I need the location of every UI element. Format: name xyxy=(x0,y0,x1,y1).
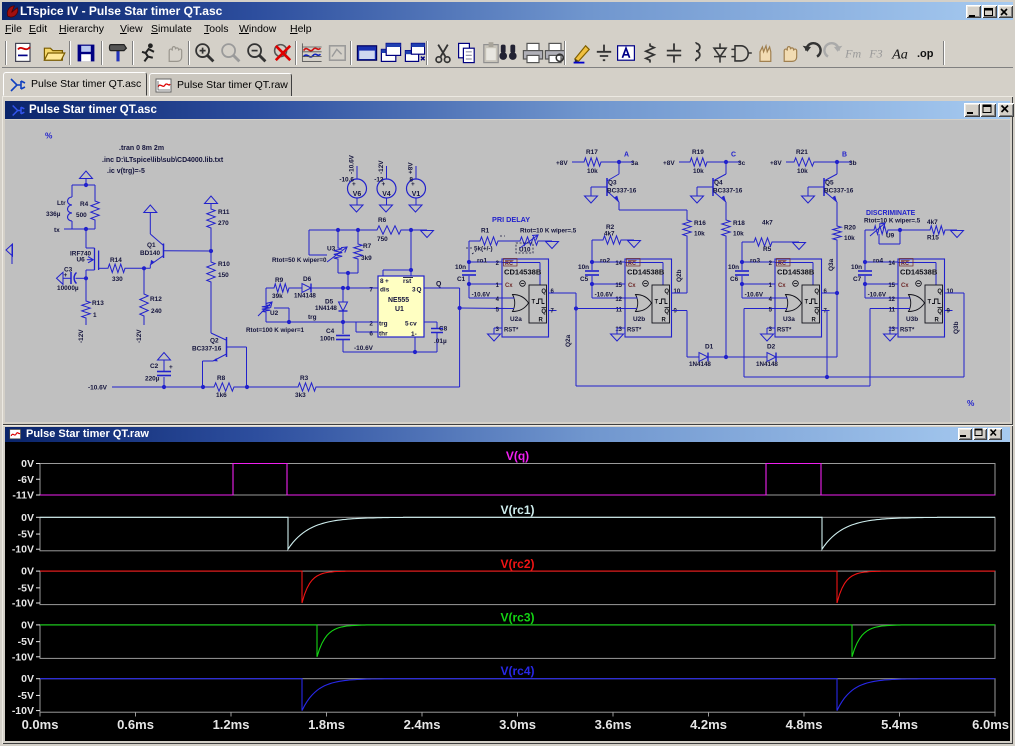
svg-text:10k: 10k xyxy=(844,235,855,242)
svg-text:cv: cv xyxy=(410,321,418,328)
svg-text:10n: 10n xyxy=(578,264,589,271)
svg-text:-10.6: -10.6 xyxy=(339,177,354,184)
svg-text:3a: 3a xyxy=(631,160,639,167)
svg-text:-5V: -5V xyxy=(18,690,34,702)
svg-text:Q: Q xyxy=(937,289,942,295)
svg-text:39k: 39k xyxy=(272,293,283,300)
svg-text:V(q): V(q) xyxy=(506,449,529,463)
svg-text:CD14538B: CD14538B xyxy=(777,268,815,277)
svg-text:10k: 10k xyxy=(797,168,808,175)
svg-text:C1: C1 xyxy=(457,276,466,283)
svg-text:U6: U6 xyxy=(77,257,86,264)
svg-text:Cx: Cx xyxy=(628,283,636,289)
svg-text:U1: U1 xyxy=(395,306,404,313)
svg-text:U10: U10 xyxy=(519,247,531,254)
svg-text:RC: RC xyxy=(628,261,636,267)
svg-text:%: % xyxy=(45,132,53,141)
svg-text:V(rc4): V(rc4) xyxy=(500,664,534,678)
svg-text:0V: 0V xyxy=(21,458,34,470)
svg-text:13: 13 xyxy=(615,327,622,333)
svg-text:5.4ms: 5.4ms xyxy=(881,717,918,732)
svg-text:+8V: +8V xyxy=(556,160,568,167)
svg-text:R9: R9 xyxy=(275,277,284,284)
svg-text:-10.6V: -10.6V xyxy=(868,292,887,299)
svg-text:R12: R12 xyxy=(150,296,162,303)
svg-text:Cx: Cx xyxy=(505,283,513,289)
svg-text:tx: tx xyxy=(54,227,60,234)
svg-text:CD14538B: CD14538B xyxy=(900,268,938,277)
svg-text:C2: C2 xyxy=(150,363,159,370)
svg-text:-10V: -10V xyxy=(12,544,34,556)
svg-text:Ltr: Ltr xyxy=(57,200,66,207)
svg-text:Rtot=10 K wiper=.5: Rtot=10 K wiper=.5 xyxy=(520,228,577,235)
svg-text:13: 13 xyxy=(888,327,895,333)
svg-text:-6V: -6V xyxy=(18,474,34,486)
svg-text:R19: R19 xyxy=(692,149,704,156)
svg-text:3k3: 3k3 xyxy=(295,392,306,399)
svg-text:RC: RC xyxy=(778,261,786,267)
svg-text:RST*: RST* xyxy=(777,328,792,334)
svg-text:Q: Q xyxy=(814,309,819,315)
svg-text:5: 5 xyxy=(405,321,409,328)
svg-text:-10V: -10V xyxy=(12,651,34,663)
svg-text:T: T xyxy=(532,300,536,306)
svg-text:10000µ: 10000µ xyxy=(57,285,79,292)
svg-text:-10.6V: -10.6V xyxy=(349,154,356,174)
svg-text:0V: 0V xyxy=(21,512,34,524)
svg-text:10n: 10n xyxy=(851,264,862,271)
svg-text:4.2ms: 4.2ms xyxy=(690,717,727,732)
svg-text:CD14538B: CD14538B xyxy=(504,268,542,277)
svg-text:D1: D1 xyxy=(705,344,714,351)
svg-text:1: 1 xyxy=(93,312,97,319)
svg-text:C6: C6 xyxy=(730,276,739,283)
svg-text:U2b: U2b xyxy=(633,316,645,323)
svg-text:-5V: -5V xyxy=(18,636,34,648)
svg-text:8: 8 xyxy=(409,177,413,184)
svg-text:Q: Q xyxy=(417,287,422,294)
svg-text:6: 6 xyxy=(824,289,828,295)
svg-text:C8: C8 xyxy=(439,326,448,333)
svg-text:500: 500 xyxy=(76,212,87,219)
svg-text:R6: R6 xyxy=(378,217,387,224)
svg-text:+: + xyxy=(64,272,68,279)
svg-text:U9: U9 xyxy=(886,233,895,240)
svg-text:ro4: ro4 xyxy=(873,258,883,265)
svg-text:10k: 10k xyxy=(694,231,705,238)
svg-text:R7: R7 xyxy=(363,243,372,250)
svg-text:Cx: Cx xyxy=(901,283,909,289)
svg-text:Q4: Q4 xyxy=(714,180,723,187)
svg-text:Rtot=10 K wiper=.5: Rtot=10 K wiper=.5 xyxy=(864,218,921,225)
svg-text:U2: U2 xyxy=(270,310,279,317)
svg-text:%: % xyxy=(967,399,975,408)
svg-text:6.0ms: 6.0ms xyxy=(972,717,1009,732)
svg-text:10k: 10k xyxy=(693,168,704,175)
svg-text:Q: Q xyxy=(937,309,942,315)
svg-text:1.2ms: 1.2ms xyxy=(213,717,250,732)
svg-text:Q3b: Q3b xyxy=(953,321,960,334)
svg-text:U3: U3 xyxy=(327,246,336,253)
svg-text:R: R xyxy=(812,318,817,324)
svg-text:1N4148: 1N4148 xyxy=(689,361,711,368)
svg-text:trg: trg xyxy=(308,314,317,321)
svg-text:U3a: U3a xyxy=(783,316,795,323)
svg-text:RST*: RST* xyxy=(900,328,915,334)
svg-text:Q3a: Q3a xyxy=(828,258,835,271)
svg-text:R1: R1 xyxy=(481,228,490,235)
svg-text:10: 10 xyxy=(947,289,954,295)
svg-text:R14: R14 xyxy=(110,257,122,264)
svg-text:NE555: NE555 xyxy=(388,297,409,304)
svg-text:PRI DELAY: PRI DELAY xyxy=(492,215,530,224)
svg-text:.inc D:\LTspice\lib\sub\CD400: .inc D:\LTspice\lib\sub\CD4000.lib.txt xyxy=(102,157,224,164)
svg-text:BC337-16: BC337-16 xyxy=(192,346,222,353)
svg-text:Rtot=100 K wiper=1: Rtot=100 K wiper=1 xyxy=(246,327,305,334)
svg-text:-12: -12 xyxy=(374,177,384,184)
svg-text:-10V: -10V xyxy=(12,598,34,610)
svg-text:10: 10 xyxy=(674,289,681,295)
svg-text:Q: Q xyxy=(541,289,546,295)
svg-text:T: T xyxy=(655,300,659,306)
svg-text:3.0ms: 3.0ms xyxy=(499,717,536,732)
svg-text:Q: Q xyxy=(664,309,669,315)
svg-text:150: 150 xyxy=(218,272,229,279)
svg-text:-12V: -12V xyxy=(78,329,85,343)
svg-text:RST*: RST* xyxy=(627,328,642,334)
svg-text:1.8ms: 1.8ms xyxy=(308,717,345,732)
svg-text:.01µ: .01µ xyxy=(434,338,447,345)
svg-text:-5V: -5V xyxy=(18,529,34,541)
svg-text:10k: 10k xyxy=(733,231,744,238)
svg-text:RC: RC xyxy=(505,261,513,267)
svg-text:Rtot=50 K wiper=0: Rtot=50 K wiper=0 xyxy=(272,257,327,264)
svg-text:+: + xyxy=(169,364,173,371)
svg-text:.op: .op xyxy=(917,48,934,60)
svg-text:R20: R20 xyxy=(844,225,856,232)
svg-text:1N4148: 1N4148 xyxy=(756,361,778,368)
svg-text:R10: R10 xyxy=(218,261,230,268)
svg-text:Q3: Q3 xyxy=(608,180,617,187)
svg-text:T: T xyxy=(805,300,809,306)
svg-text:0.6ms: 0.6ms xyxy=(117,717,154,732)
svg-text:336µ: 336µ xyxy=(46,211,61,218)
svg-text:240: 240 xyxy=(151,308,162,315)
svg-text:R5: R5 xyxy=(763,246,772,253)
svg-text:RST*: RST* xyxy=(504,328,519,334)
svg-text:trg: trg xyxy=(379,321,388,328)
svg-text:9: 9 xyxy=(674,309,678,315)
svg-text:5k(+/-): 5k(+/-) xyxy=(474,246,493,253)
svg-text:330: 330 xyxy=(112,276,123,283)
svg-text:9: 9 xyxy=(947,309,951,315)
svg-text:D2: D2 xyxy=(767,344,776,351)
svg-text:C: C xyxy=(731,152,736,159)
svg-text:Q5: Q5 xyxy=(825,180,834,187)
svg-text:100n: 100n xyxy=(320,336,335,343)
svg-text:ro1: ro1 xyxy=(477,258,487,265)
svg-text:3b: 3b xyxy=(849,160,857,167)
svg-text:Cx: Cx xyxy=(778,283,786,289)
svg-text:0V: 0V xyxy=(21,619,34,631)
svg-text:BC337-16: BC337-16 xyxy=(607,187,637,194)
svg-text:0V: 0V xyxy=(21,673,34,685)
svg-text:3c: 3c xyxy=(738,160,746,167)
svg-text:R4: R4 xyxy=(80,201,89,208)
svg-text:2.4ms: 2.4ms xyxy=(404,717,441,732)
svg-text:4k7: 4k7 xyxy=(927,219,938,226)
svg-text:-10.6V: -10.6V xyxy=(88,385,108,392)
svg-text:.ic v(trg)=-5: .ic v(trg)=-5 xyxy=(107,168,145,175)
svg-text:Q2a: Q2a xyxy=(565,334,572,347)
svg-text:R13: R13 xyxy=(92,300,104,307)
svg-text:+8V: +8V xyxy=(408,162,415,174)
svg-text:F3: F3 xyxy=(868,46,882,60)
svg-text:thr: thr xyxy=(379,331,388,338)
svg-text:R15: R15 xyxy=(927,235,939,242)
svg-text:R: R xyxy=(935,318,940,324)
svg-text:6: 6 xyxy=(551,289,555,295)
svg-text:V6: V6 xyxy=(353,191,362,198)
svg-text:10n: 10n xyxy=(455,264,466,271)
svg-text:0V: 0V xyxy=(21,566,34,578)
svg-text:10n: 10n xyxy=(728,264,739,271)
svg-text:Aa: Aa xyxy=(891,46,908,62)
svg-text:4k7: 4k7 xyxy=(604,231,615,238)
svg-text:CD14538B: CD14538B xyxy=(627,268,665,277)
svg-text:3: 3 xyxy=(412,287,416,294)
svg-text:+8V: +8V xyxy=(770,160,782,167)
svg-text:V(rc1): V(rc1) xyxy=(500,503,534,517)
svg-text:dis: dis xyxy=(380,287,390,294)
svg-text:-10.6V: -10.6V xyxy=(354,345,374,352)
svg-text:D6: D6 xyxy=(303,276,312,283)
svg-text:A: A xyxy=(624,152,629,159)
svg-text:-10.6V: -10.6V xyxy=(472,292,491,299)
svg-text:3.6ms: 3.6ms xyxy=(595,717,632,732)
svg-text:U2a: U2a xyxy=(510,316,522,323)
svg-text:Q: Q xyxy=(814,289,819,295)
svg-text:R8: R8 xyxy=(217,375,226,382)
svg-text:V(rc2): V(rc2) xyxy=(500,557,534,571)
svg-text:R16: R16 xyxy=(694,220,706,227)
svg-text:1k6: 1k6 xyxy=(216,392,227,399)
svg-text:Q: Q xyxy=(664,289,669,295)
svg-text:rst: rst xyxy=(403,278,412,285)
svg-text:4k7: 4k7 xyxy=(762,220,773,227)
svg-text:V4: V4 xyxy=(382,191,391,198)
svg-text:750: 750 xyxy=(377,236,388,243)
svg-text:R: R xyxy=(539,318,544,324)
svg-text:R17: R17 xyxy=(586,149,598,156)
svg-text:R: R xyxy=(662,318,667,324)
svg-text:.tran 0 8m 2m: .tran 0 8m 2m xyxy=(119,145,164,152)
svg-text:Q: Q xyxy=(436,281,442,288)
svg-text:R21: R21 xyxy=(796,149,808,156)
svg-text:R11: R11 xyxy=(218,209,230,216)
svg-text:270: 270 xyxy=(218,220,229,227)
svg-text:-10.6V: -10.6V xyxy=(745,292,764,299)
svg-text:1-: 1- xyxy=(411,331,417,338)
svg-text:R3: R3 xyxy=(300,375,309,382)
svg-text:U3b: U3b xyxy=(906,316,918,323)
svg-text:Q: Q xyxy=(541,309,546,315)
svg-text:-10V: -10V xyxy=(12,705,34,717)
svg-text:B: B xyxy=(842,152,847,159)
svg-text:1N4148: 1N4148 xyxy=(294,293,316,300)
svg-text:BC337-16: BC337-16 xyxy=(824,187,854,194)
svg-text:10k: 10k xyxy=(587,168,598,175)
svg-text:-5V: -5V xyxy=(18,582,34,594)
svg-text:220µ: 220µ xyxy=(145,376,160,383)
svg-text:-10.6V: -10.6V xyxy=(595,292,614,299)
svg-text:C4: C4 xyxy=(326,328,335,335)
svg-text:1N4148: 1N4148 xyxy=(315,305,337,312)
svg-text:DISCRIMINATE: DISCRIMINATE xyxy=(866,210,916,217)
svg-text:C7: C7 xyxy=(853,276,862,283)
svg-text:R18: R18 xyxy=(733,220,745,227)
svg-text:-12V: -12V xyxy=(378,160,385,174)
svg-text:Fm: Fm xyxy=(844,46,861,60)
svg-text:V(rc3): V(rc3) xyxy=(500,611,534,625)
svg-text:+8V: +8V xyxy=(663,160,675,167)
svg-text:Q2: Q2 xyxy=(210,338,219,345)
svg-text:ro3: ro3 xyxy=(750,258,760,265)
svg-text:0.0ms: 0.0ms xyxy=(22,717,59,732)
svg-text:BD140: BD140 xyxy=(140,250,160,257)
svg-text:C5: C5 xyxy=(580,276,589,283)
svg-text:T: T xyxy=(928,300,932,306)
svg-text:-11V: -11V xyxy=(12,490,34,502)
svg-text:4.8ms: 4.8ms xyxy=(786,717,823,732)
svg-text:BC337-16: BC337-16 xyxy=(713,187,743,194)
svg-text:RC: RC xyxy=(901,261,909,267)
svg-text:Q1: Q1 xyxy=(147,242,156,249)
svg-text:7: 7 xyxy=(551,309,555,315)
svg-text:ro2: ro2 xyxy=(600,258,610,265)
svg-text:3k9: 3k9 xyxy=(361,255,372,262)
svg-text:8: 8 xyxy=(380,278,384,285)
svg-text:Q2b: Q2b xyxy=(676,269,683,282)
svg-text:-12V: -12V xyxy=(136,329,143,343)
svg-text:+: + xyxy=(385,278,389,285)
svg-text:V1: V1 xyxy=(412,191,421,198)
